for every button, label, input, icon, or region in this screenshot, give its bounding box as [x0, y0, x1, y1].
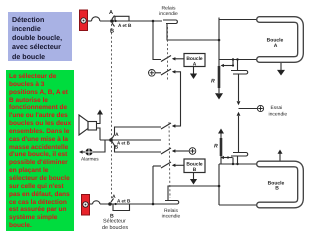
wire to selector S3 and K2 [100, 203, 165, 205]
contact blade row5 [161, 162, 171, 168]
branch to relay coil B [153, 165, 161, 167]
connector arrowhead R2 [221, 156, 224, 159]
capacitor C1 bars [231, 71, 248, 75]
ground lead under coil A [193, 67, 195, 75]
selector S3 bracket [113, 204, 130, 211]
supply circle +2 [189, 148, 196, 155]
Boucle B coil box [184, 159, 205, 173]
relay K2 output wire [168, 186, 219, 201]
connector arrow at R2 [223, 157, 233, 159]
junction drop to connector [232, 60, 234, 66]
wire bus to loop A top [219, 19, 257, 21]
svg-text:R: R [214, 144, 218, 150]
detector D2 red [82, 195, 90, 216]
svg-text:Essai: Essai [271, 105, 283, 111]
svg-text:Boucle: Boucle [186, 162, 203, 168]
selector S2 B wire [115, 146, 162, 153]
plus arrow R2 [218, 129, 224, 134]
wire hop [92, 17, 100, 21]
resistor R2 body [220, 138, 223, 156]
supply + circle to blade row2 [156, 72, 162, 74]
speaker bottom terminal down [97, 128, 101, 140]
essai line down to C2 [238, 116, 240, 153]
wire row2 to vertical feed [173, 72, 181, 127]
svg-text:Sélecteur: Sélecteur [103, 219, 126, 225]
bus A vertical [218, 18, 220, 60]
wire hop bottom [93, 201, 101, 204]
ground lead under coil B [193, 173, 195, 181]
dashed link relay K1 [167, 27, 169, 80]
svg-text:A: A [112, 194, 116, 200]
supply circle +1 [149, 70, 156, 77]
loop B cable [260, 164, 301, 205]
description box [6, 70, 74, 231]
capacitor C2 bars [231, 153, 248, 157]
wire contact K1 down [167, 24, 219, 40]
capacitor C2 bottom lead [237, 156, 239, 164]
svg-text:A et B: A et B [117, 140, 131, 145]
alarm device [85, 148, 92, 155]
wire arrow to Boucle B coil [173, 164, 184, 166]
dashed gang link selectors [111, 24, 113, 200]
connector arrow at R1 [223, 65, 233, 67]
masse arrow loop A [277, 70, 285, 76]
speaker top terminal to + [97, 115, 101, 124]
wire bus to loop B bottom [219, 204, 257, 206]
essai connector arrowheads [237, 101, 241, 105]
contact blade row3 [161, 123, 171, 129]
svg-text:Alarmes: Alarmes [81, 157, 99, 163]
contact blade row1 [161, 56, 171, 62]
svg-text:incendie: incendie [162, 213, 181, 219]
selector S2 A wire [115, 127, 162, 135]
masse arrow under coil A [190, 74, 197, 80]
plus arrow loop B [278, 150, 283, 154]
row4 wire to + [173, 150, 189, 152]
loop B plus lead [279, 153, 281, 161]
resistor R2 bottom lead [220, 156, 222, 164]
svg-text:A et B: A et B [117, 199, 131, 204]
svg-text:B: B [115, 144, 119, 150]
svg-text:B: B [110, 29, 114, 35]
wire to selector S2 [100, 139, 161, 141]
speaker HP box [88, 122, 97, 131]
svg-text:R: R [211, 79, 215, 85]
capacitor C1 top lead [237, 60, 239, 71]
selector S2 contact A tick [112, 135, 115, 139]
contact blade row2 [161, 69, 171, 75]
selector S1 contact B tick [112, 23, 115, 27]
resistor R1 ground lead [218, 88, 220, 93]
vertical from bottom selector [152, 166, 154, 204]
svg-text:incendie: incendie [269, 112, 288, 118]
resistor R1 lead [218, 60, 220, 67]
row3 arrow link [173, 125, 181, 127]
masse arrow under R1 [215, 93, 223, 99]
Boucle A coil box [184, 54, 205, 67]
alarm lamp right wire up [93, 141, 105, 153]
svg-text:A: A [115, 132, 119, 138]
essai test wire [239, 108, 258, 110]
resistor R2 top lead [220, 134, 222, 139]
speaker HP cone [79, 115, 88, 135]
selector S1 bracket [115, 16, 129, 21]
masse arrow under coil B [190, 179, 197, 185]
svg-text:A: A [109, 10, 113, 16]
title box [8, 12, 72, 61]
resistor R1 body [218, 66, 221, 88]
schematic labels [81, 6, 287, 232]
contact blade row4 [161, 148, 171, 154]
svg-text:B: B [275, 185, 279, 191]
essai circle + [257, 105, 263, 111]
selector S1 contact A tick [112, 16, 115, 20]
svg-text:Boucle: Boucle [186, 56, 203, 62]
detector D2 wire [90, 203, 93, 205]
svg-text:A: A [274, 43, 278, 49]
dashed link relay K2 [169, 122, 170, 198]
essai line down from C1 [238, 74, 240, 101]
plus arrow speaker [97, 110, 103, 115]
junction dots [110, 19, 114, 23]
wire bus to loop B top [219, 163, 257, 165]
svg-text:A et B: A et B [118, 23, 132, 28]
alarm line arrowhead [79, 150, 83, 153]
wire to selector S1 [100, 20, 162, 22]
ground lead loop A [280, 63, 282, 71]
alarm lamp left arrow wire [81, 151, 85, 153]
selector S3 contact A tick [111, 199, 114, 203]
svg-text:A: A [193, 61, 197, 67]
junction rise from connector [232, 158, 234, 165]
detector D1 red [80, 10, 88, 31]
bus B vertical [218, 164, 220, 205]
selector S2 contact B tick [112, 142, 115, 146]
relay K2 contact bars [165, 201, 179, 205]
detector D1 (red) wire to selector [88, 20, 92, 22]
relay K1 contact bars [163, 20, 177, 24]
connector arrowhead R1 [221, 64, 224, 67]
wire bus to loop A bottom [219, 59, 257, 61]
wire arrow to Boucle A coil [173, 58, 184, 60]
svg-text:incendie: incendie [159, 11, 178, 17]
svg-text:B: B [193, 167, 197, 173]
loop A cable [260, 20, 301, 60]
arrowheads on contact rows [172, 57, 176, 60]
svg-text:de boucles: de boucles [102, 225, 128, 231]
wire node to relay coil branch [153, 21, 161, 60]
